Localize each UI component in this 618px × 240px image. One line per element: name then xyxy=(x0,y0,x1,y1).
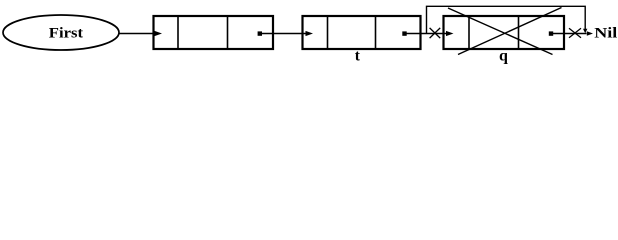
svg-text:Nil: Nil xyxy=(594,26,617,42)
svg-text:t: t xyxy=(355,48,361,65)
svg-text:First: First xyxy=(49,26,83,42)
svg-text:q: q xyxy=(499,47,508,64)
